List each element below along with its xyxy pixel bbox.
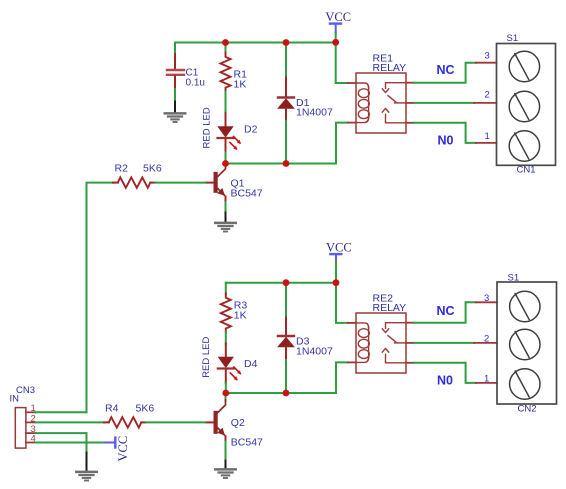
wire R2 base net (long vertical) bbox=[87, 183, 114, 413]
svg-text:S1: S1 bbox=[507, 33, 519, 44]
svg-text:VCC: VCC bbox=[326, 240, 352, 254]
wire relay common to pin2 (bottom) bbox=[414, 342, 474, 344]
junction VCC rail / R1 bbox=[222, 39, 229, 46]
svg-text:NC: NC bbox=[437, 304, 455, 318]
wire relay NC to pin3 (bottom) bbox=[414, 302, 476, 322]
svg-text:N0: N0 bbox=[438, 134, 454, 148]
svg-text:RED LED: RED LED bbox=[202, 107, 213, 148]
relay pin stubs (RE2) bbox=[348, 322, 356, 324]
wire top rail bbox=[175, 42, 336, 44]
connector S1/CN2 bbox=[497, 272, 557, 414]
svg-text:1K: 1K bbox=[234, 309, 247, 321]
svg-text:1K: 1K bbox=[234, 78, 247, 90]
svg-text:1: 1 bbox=[485, 131, 490, 142]
wire to coil bottom (RE2) bbox=[336, 362, 348, 393]
power VCC (top) bbox=[325, 10, 351, 42]
wire collector rail (bottom) bbox=[226, 392, 336, 394]
svg-text:R4: R4 bbox=[105, 403, 119, 415]
wire VCC to coil top bbox=[336, 42, 348, 83]
resistor R1 bbox=[221, 43, 248, 113]
wire pin4 to VCC bbox=[36, 442, 106, 444]
pin stubs CN3 bbox=[26, 412, 36, 442]
relay coil (RE2) bbox=[356, 323, 369, 328]
ground (C1) bbox=[165, 102, 185, 123]
relay contacts bbox=[386, 83, 407, 89]
relay contacts (RE2) bbox=[386, 323, 407, 329]
resistor R3 bbox=[221, 283, 248, 344]
svg-text:BC547: BC547 bbox=[231, 436, 263, 448]
terminal pin stubs S1 bottom bbox=[474, 302, 497, 383]
ground (Q1) bbox=[215, 213, 235, 232]
svg-text:VCC: VCC bbox=[325, 10, 351, 24]
wire VCC to coil top (RE2) bbox=[336, 283, 348, 323]
svg-text:VCC: VCC bbox=[116, 436, 130, 462]
terminal pin stubs S1 top bbox=[474, 63, 497, 143]
transistor Q1 bbox=[206, 164, 263, 213]
wire pin2 to R4 bbox=[36, 421, 105, 423]
wire to coil bottom bbox=[336, 123, 348, 164]
power VCC (bottom) bbox=[326, 240, 352, 282]
svg-text:3: 3 bbox=[484, 293, 489, 304]
svg-text:CN1: CN1 bbox=[517, 164, 536, 175]
relay coil bbox=[356, 83, 369, 88]
svg-text:D2: D2 bbox=[244, 124, 258, 136]
connector S1/CN1 bbox=[497, 33, 556, 175]
svg-text:NC: NC bbox=[437, 63, 455, 77]
wire collector rail (top) bbox=[226, 163, 337, 165]
diode D1 bbox=[278, 43, 333, 164]
svg-text:BC547: BC547 bbox=[231, 187, 263, 199]
transistor Q2 bbox=[206, 393, 264, 461]
svg-text:5K6: 5K6 bbox=[143, 163, 162, 175]
svg-text:RELAY: RELAY bbox=[373, 302, 407, 314]
ground (Q2) bbox=[215, 461, 235, 479]
svg-text:0.1u: 0.1u bbox=[186, 77, 205, 88]
ground (CN3) bbox=[76, 453, 96, 481]
LED D4 bbox=[201, 336, 258, 393]
svg-text:2: 2 bbox=[484, 334, 489, 345]
junction Q1 collector / D2 bbox=[222, 160, 229, 167]
svg-text:2: 2 bbox=[485, 90, 490, 101]
junction VCC rail / D1 bbox=[283, 39, 290, 46]
junction Q1 collector / D1 bbox=[283, 160, 290, 167]
resistor R4 bbox=[104, 403, 206, 428]
svg-text:IN: IN bbox=[10, 394, 20, 405]
capacitor C1 bbox=[167, 43, 205, 102]
wire relay NO to pin1 bbox=[414, 123, 476, 143]
junction VCC rail 2 / VCC pin bbox=[333, 279, 340, 286]
svg-text:Q2: Q2 bbox=[231, 417, 245, 429]
svg-text:RELAY: RELAY bbox=[373, 62, 407, 74]
wire top rail (bottom channel) bbox=[226, 282, 336, 284]
svg-text:5K6: 5K6 bbox=[136, 403, 155, 415]
junction Q2 collector / D3 bbox=[283, 390, 290, 397]
wire pin1 to R2 bbox=[36, 411, 87, 413]
wire relay common to pin2 bbox=[414, 102, 474, 104]
relay pin stubs bbox=[348, 82, 356, 84]
svg-text:D4: D4 bbox=[244, 358, 258, 370]
wire relay NC to pin3 bbox=[414, 63, 476, 83]
connector CN3 bbox=[10, 385, 36, 448]
svg-text:S1: S1 bbox=[508, 272, 520, 283]
svg-text:CN2: CN2 bbox=[518, 404, 537, 415]
svg-text:R2: R2 bbox=[115, 163, 129, 175]
junction Q2 collector / D4 bbox=[222, 390, 229, 397]
LED D2 bbox=[202, 107, 258, 163]
diode D3 bbox=[278, 283, 333, 393]
relay RE2 bbox=[348, 293, 414, 373]
relay RE1 bbox=[348, 53, 414, 133]
svg-text:1N4007: 1N4007 bbox=[296, 345, 333, 357]
svg-text:1N4007: 1N4007 bbox=[296, 107, 333, 119]
wire relay NO to pin1 (bottom) bbox=[414, 363, 476, 383]
svg-text:RED LED: RED LED bbox=[201, 336, 212, 377]
wire pin3 to ground bbox=[36, 433, 87, 452]
svg-text:3: 3 bbox=[485, 51, 490, 62]
junction VCC rail / VCC pin bbox=[332, 39, 339, 46]
svg-text:1: 1 bbox=[484, 374, 489, 385]
resistor R2 bbox=[113, 163, 206, 188]
junction VCC rail 2 / D3 bbox=[283, 279, 290, 286]
svg-text:N0: N0 bbox=[437, 374, 453, 388]
power VCC (input, rotated) bbox=[105, 436, 130, 462]
